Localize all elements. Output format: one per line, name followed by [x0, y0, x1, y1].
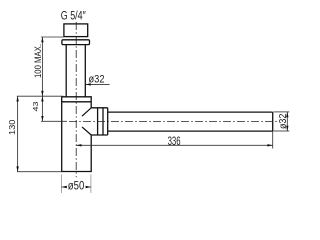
extension line under nut: [41, 36, 64, 38]
arrow 43 bottom: [41, 116, 43, 121]
extension line ø50 right: [90, 175, 92, 194]
extension line ø32 top: [274, 111, 290, 113]
svg-text:ø50: ø50: [68, 180, 85, 192]
arrow ø50 right: [86, 186, 91, 188]
arrow 100 bottom: [41, 91, 43, 96]
outlet tube top wall: [108, 111, 273, 113]
trap body: [62, 97, 91, 172]
arrow leader ø32: [85, 83, 91, 85]
svg-text:ø32: ø32: [89, 73, 105, 85]
arrow 130 bottom: [16, 166, 18, 171]
dimension line 100 MAX / 43: [41, 37, 43, 121]
flange: [62, 40, 90, 45]
outlet nut right face: [107, 108, 109, 135]
outlet boss bottom: [91, 134, 108, 136]
outlet nut left face: [97, 108, 99, 135]
leader ø32 inlet: [86, 83, 110, 85]
extension line outlet axis: [41, 120, 67, 122]
extension line ø50 left: [61, 175, 63, 194]
svg-text:G 5/4″: G 5/4″: [61, 11, 86, 23]
horizontal centerline: [69, 121, 277, 123]
svg-text:100 MAX.: 100 MAX.: [33, 44, 43, 78]
body ring line: [62, 101, 91, 103]
dimension line 336: [76, 144, 273, 146]
svg-text:ø32: ø32: [278, 113, 289, 129]
arrow ø50 left: [62, 186, 67, 188]
extension line 336 right: [272, 131, 274, 148]
arrow 100 top: [41, 37, 43, 42]
inlet tube right wall: [84, 45, 86, 97]
extension line body top: [17, 95, 64, 97]
dimension line ø50 right segment: [86, 186, 91, 188]
dimension line ø50 left segment: [62, 186, 67, 188]
extension line body bottom: [17, 171, 62, 173]
outlet nut groove: [102, 108, 104, 135]
svg-text:130: 130: [7, 119, 17, 135]
union nut G5/4: [64, 24, 88, 37]
cone diagonal upper: [82, 108, 91, 116]
cone diagonal lower: [82, 127, 91, 135]
vertical centerline: [75, 22, 77, 177]
arrow 130 top: [16, 96, 18, 101]
inlet tube left wall: [65, 45, 67, 97]
dimension line 130: [17, 96, 19, 172]
arrow 336 left: [76, 144, 81, 146]
arrow 43 top: [41, 96, 43, 101]
arrow ø32 top: [286, 112, 288, 117]
outlet boss top: [91, 107, 108, 109]
arrow 336 right: [267, 144, 272, 146]
svg-text:43: 43: [31, 102, 40, 112]
arrow ø32 bottom: [286, 126, 288, 131]
outlet tube bottom wall: [108, 130, 273, 132]
dimension line ø32 right: [286, 112, 288, 131]
outlet tube end: [272, 112, 274, 131]
extension line ø32 bottom: [274, 130, 290, 132]
svg-text:336: 336: [168, 136, 181, 148]
